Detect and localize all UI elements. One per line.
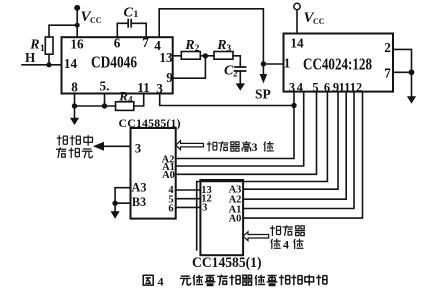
wire VCC branch to R1 top	[49, 25, 77, 37]
svg-text:H: H	[25, 50, 36, 65]
wire pin4 VCO out to CC4024 pin1	[159, 9, 283, 64]
ground arrow below pin8	[70, 118, 79, 125]
svg-text:3: 3	[226, 44, 231, 54]
svg-text:SP: SP	[255, 86, 271, 101]
power VCC circle terminal (right, open)	[294, 3, 300, 9]
annotation text interrupt request line2	[56, 147, 93, 158]
wire Q6 drop line to latch A1	[176, 92, 304, 166]
svg-text:11: 11	[137, 80, 149, 95]
svg-text:R: R	[216, 38, 226, 53]
junction pin2/pin7	[409, 69, 415, 75]
wire R2 to R3	[200, 55, 214, 57]
wire R4 to pin11	[134, 94, 144, 107]
capacitor C1 plates	[128, 20, 131, 27]
junction SP tap	[261, 61, 266, 66]
wire pin5 down	[104, 94, 106, 107]
IC U3 CC14585(1) left latch body	[131, 128, 176, 219]
ground arrow below A3B3	[111, 211, 120, 218]
svg-text:3: 3	[156, 81, 163, 96]
svg-text:4: 4	[297, 81, 303, 95]
wire SP tap arrow shaft	[262, 64, 264, 75]
caption figure char	[143, 275, 153, 285]
svg-text:CC4024:128: CC4024:128	[303, 55, 372, 74]
wire H input to pin 14	[22, 64, 62, 66]
svg-text:2: 2	[384, 40, 391, 55]
wire pins8+5 to R4	[75, 105, 116, 107]
wire U3 pin4 to U4 pin13	[176, 189, 201, 191]
wire latch U3 pin3 interrupt out	[103, 145, 131, 147]
resistor R2 body	[181, 52, 200, 60]
junction A3B3	[112, 201, 117, 206]
annotation text low-4-bits line2	[271, 239, 304, 249]
wire R1 bottom to node H	[48, 54, 50, 65]
resistor R3 body	[214, 52, 233, 60]
wire latch U3 A3 B3 tie	[115, 188, 130, 204]
svg-text:CD4046: CD4046	[91, 53, 137, 72]
wire pin9 feedback to R2/R3 node	[173, 56, 206, 78]
svg-text:3: 3	[289, 81, 295, 95]
svg-text:2: 2	[233, 70, 238, 80]
svg-text:5.: 5.	[100, 79, 110, 94]
svg-text:13: 13	[159, 50, 173, 65]
annotation text latch-high-3bits	[207, 141, 274, 152]
hollow annotation arrow latch-high3	[176, 141, 204, 150]
svg-text:1: 1	[40, 44, 45, 54]
svg-text:14: 14	[64, 56, 78, 71]
svg-text:CC14585(1): CC14585(1)	[119, 116, 181, 130]
arrowhead interrupt request	[93, 142, 104, 151]
wire U3 pin5 to U4 pin12	[176, 198, 201, 200]
svg-text:4: 4	[128, 95, 133, 105]
svg-text:R: R	[184, 38, 194, 53]
wire R3 to C2	[233, 56, 240, 67]
svg-text:B3: B3	[132, 195, 146, 209]
junction pin5	[102, 103, 107, 108]
wire U3 pin6 to U4 pin3	[176, 206, 201, 208]
junction pin8	[72, 103, 77, 108]
wire pin3 comparator in from CC4024 Q7	[160, 94, 294, 106]
svg-text:6: 6	[114, 36, 121, 51]
caption text	[180, 275, 327, 286]
resistor R1 body	[45, 37, 53, 54]
IC U4 CC14585(1) bottom latch body	[200, 180, 243, 255]
svg-text:A0: A0	[162, 170, 175, 181]
junction H/R1	[46, 62, 51, 67]
wire pin8 down	[74, 94, 76, 107]
svg-text:11: 11	[339, 81, 351, 95]
annotation text latch (low label line1)	[270, 225, 305, 236]
svg-text:CC14585(1): CC14585(1)	[192, 255, 262, 271]
svg-text:6: 6	[324, 81, 330, 95]
wire CC4024 VCC terminal	[296, 10, 298, 34]
wire Q1 drop line to latch2 A1	[243, 92, 354, 209]
svg-text:3: 3	[252, 140, 258, 154]
svg-text:A3: A3	[132, 181, 147, 195]
IC U1 CD4046 body	[62, 37, 173, 93]
wire C2 to ground	[239, 71, 241, 83]
power VCC terminal dot (left)	[74, 5, 80, 11]
svg-text:1: 1	[284, 56, 291, 71]
wire Q4 drop line strobe	[197, 92, 328, 250]
svg-text:3: 3	[202, 203, 207, 214]
wire Q3 drop line to latch2 A3	[243, 92, 338, 190]
hollow annotation arrow latch-low4	[243, 232, 269, 241]
junction VCC/R1	[75, 23, 80, 28]
svg-text:C: C	[124, 6, 134, 21]
svg-text:8: 8	[71, 80, 78, 95]
wire pin2 reset to pin7 and ground	[393, 49, 412, 96]
svg-text:A0: A0	[229, 214, 242, 225]
wire Q7 drop line to latch A2	[176, 92, 294, 159]
svg-text:14: 14	[290, 36, 304, 51]
svg-text:16: 16	[70, 37, 84, 52]
junction R2/R3/pin9	[203, 53, 208, 58]
wire VCC terminal to pin16	[76, 8, 78, 37]
svg-text:7: 7	[384, 66, 391, 81]
wire Q5 drop line to latch A0	[176, 92, 317, 175]
IC U2 CC4024:128 body	[284, 34, 394, 92]
wire Q0 drop line to latch2 A0	[243, 92, 362, 219]
svg-text:4: 4	[158, 275, 164, 289]
capacitor C2 plates	[235, 67, 246, 71]
svg-text:5: 5	[312, 81, 318, 95]
svg-text:R: R	[118, 89, 128, 104]
svg-text:12: 12	[350, 81, 362, 95]
svg-text:1: 1	[134, 10, 139, 20]
svg-text:3: 3	[135, 142, 141, 156]
wire pin8 node to ground	[74, 106, 76, 118]
arrowhead SP	[260, 74, 268, 84]
ground arrow below pin7 CC4024	[407, 96, 416, 103]
svg-text:CC: CC	[313, 17, 325, 26]
annotation text interrupt request line1	[57, 135, 93, 146]
svg-text:9: 9	[166, 70, 173, 85]
wire pin13 to R2	[173, 55, 182, 57]
svg-text:CC: CC	[90, 16, 102, 25]
svg-text:4: 4	[283, 237, 289, 251]
wire Q2 drop line to latch2 A2	[243, 92, 346, 200]
junction Q7/comparator line	[291, 103, 296, 108]
ground arrow below C2	[236, 83, 245, 90]
resistor R4 body	[116, 102, 134, 111]
svg-text:7: 7	[142, 35, 149, 50]
capacitor C1 bridge pin6-pin7	[117, 23, 146, 37]
svg-text:2: 2	[195, 44, 200, 54]
svg-text:6: 6	[168, 204, 173, 215]
wire A3B3 node to ground	[114, 203, 116, 211]
